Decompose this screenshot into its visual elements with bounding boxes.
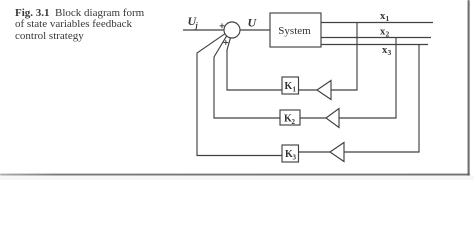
svg-text:System: System: [278, 25, 311, 37]
svg-text:2: 2: [386, 29, 390, 38]
svg-text:2: 2: [292, 118, 296, 126]
svg-text:3: 3: [293, 154, 297, 162]
svg-text:K: K: [285, 81, 293, 92]
svg-text:1: 1: [386, 14, 390, 23]
svg-text:U: U: [248, 16, 258, 30]
svg-text:3: 3: [388, 48, 392, 57]
svg-text:1: 1: [293, 86, 297, 94]
